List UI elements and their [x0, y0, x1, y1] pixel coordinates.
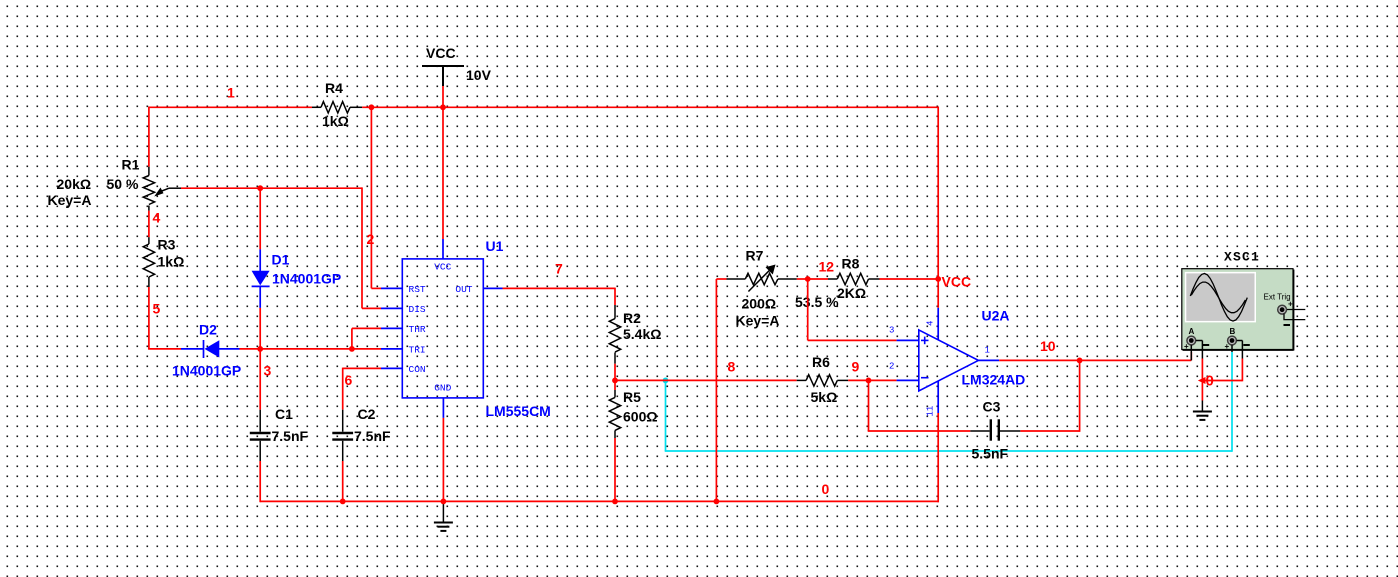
resistor R3: [143, 237, 154, 287]
svg-text:VCC: VCC: [434, 262, 451, 273]
wire cyan probe net: [665, 352, 1232, 452]
junction R7 drop / rail: [714, 499, 720, 505]
wire net 7 OUT: [503, 288, 616, 305]
svg-text:R7: R7: [746, 248, 764, 264]
svg-text:CON: CON: [409, 364, 426, 375]
capacitor C2: [332, 410, 353, 461]
wire net 6 CON to C2: [343, 368, 381, 410]
svg-text:50 %: 50 %: [107, 176, 139, 192]
svg-text:3: 3: [264, 363, 272, 379]
svg-text:R5: R5: [623, 389, 641, 405]
svg-text:53.5 %: 53.5 %: [795, 294, 839, 310]
R7 wiper arrowhead: [766, 265, 776, 275]
svg-text:1N4001GP: 1N4001GP: [272, 271, 341, 287]
junction wiper / D1 branch: [257, 185, 263, 191]
junction R7/R8/+in: [805, 276, 811, 282]
U2A - input sign: [921, 377, 929, 379]
junction VCC right rail: [935, 276, 941, 282]
svg-text:U2A: U2A: [982, 308, 1010, 324]
svg-text:12: 12: [819, 259, 835, 275]
junction at VCC stem: [440, 104, 446, 110]
wire net 5: [148, 287, 181, 349]
svg-text:4: 4: [926, 321, 936, 326]
svg-text:Ext Trig: Ext Trig: [1264, 293, 1291, 302]
svg-text:R6: R6: [812, 354, 830, 370]
svg-text:5.4kΩ: 5.4kΩ: [623, 326, 661, 342]
Ext Trig terminal: [1278, 305, 1287, 314]
svg-text:GND: GND: [434, 383, 451, 394]
svg-text:10V: 10V: [466, 67, 492, 83]
R1 wiper arrowhead: [154, 188, 163, 197]
junction output / C3 branch: [1077, 358, 1083, 364]
U2A pin stubs: [897, 308, 1000, 413]
junction gnd / rail: [441, 499, 447, 505]
wire net 10 output: [999, 352, 1191, 360]
ground symbol under U1: [434, 502, 453, 531]
wire +input from R7 junction: [808, 279, 897, 340]
junction C2 / rail: [340, 499, 346, 505]
svg-text:2KΩ: 2KΩ: [837, 285, 866, 301]
wire VCC to U1 top pin: [442, 107, 444, 239]
svg-text:4: 4: [153, 210, 161, 226]
svg-text:Key=A: Key=A: [48, 192, 92, 208]
junction net3 / C1 branch: [257, 346, 263, 352]
svg-text:R1: R1: [122, 157, 140, 173]
cyan junction on net 8: [663, 378, 669, 384]
svg-text:C1: C1: [275, 406, 293, 422]
svg-text:RST: RST: [409, 284, 426, 295]
potentiometer R7: [716, 279, 807, 501]
svg-text:Key=A: Key=A: [736, 313, 780, 329]
wire net 3 horizontal to TRI: [240, 328, 382, 349]
resistor R4: [312, 102, 362, 113]
svg-text:THR: THR: [409, 324, 426, 335]
svg-text:1: 1: [985, 346, 990, 356]
svg-text:0: 0: [822, 481, 830, 497]
wire scope A minus path: [1196, 341, 1203, 359]
svg-text:600Ω: 600Ω: [623, 409, 658, 425]
svg-text:D2: D2: [199, 322, 217, 338]
wire pin 11 down to rail: [937, 413, 939, 502]
svg-text:R3: R3: [158, 237, 176, 253]
junction net9 / C3 branch: [866, 378, 872, 384]
capacitor C1: [259, 349, 261, 502]
wire net 8: [615, 364, 797, 381]
wire net 4: [148, 211, 150, 238]
svg-text:+: +: [1184, 342, 1189, 351]
wire VCC junction to pin 4: [937, 279, 939, 308]
svg-text:DIS: DIS: [409, 304, 426, 315]
resistor R6: [797, 375, 849, 386]
terminal A minus mark: [1203, 344, 1210, 346]
svg-text:3: 3: [889, 326, 894, 336]
junction R2/R5/net8: [612, 378, 618, 384]
wire VCC stem: [442, 86, 444, 107]
svg-text:1kΩ: 1kΩ: [158, 254, 185, 270]
junction at R4 right / RST drop: [369, 104, 375, 110]
wire net 0 bottom rail: [260, 500, 939, 502]
svg-text:C2: C2: [358, 406, 376, 422]
svg-text:+: +: [1288, 300, 1293, 309]
svg-text:2: 2: [889, 362, 894, 372]
svg-text:1: 1: [227, 85, 235, 101]
svg-text:OUT: OUT: [455, 284, 472, 295]
svg-text:VCC: VCC: [426, 45, 456, 61]
svg-text:7.5nF: 7.5nF: [354, 428, 391, 444]
op-amp U2A LM324AD: [919, 330, 979, 391]
svg-text:5.5nF: 5.5nF: [972, 446, 1009, 462]
svg-text:5kΩ: 5kΩ: [811, 389, 838, 405]
svg-text:1N4001GP: 1N4001GP: [172, 363, 241, 379]
svg-text:D1: D1: [272, 252, 290, 268]
svg-text:LM324AD: LM324AD: [962, 372, 1026, 388]
terminal B: [1228, 336, 1237, 345]
junction net3 / THR branch: [349, 346, 355, 352]
svg-text:LM555CM: LM555CM: [486, 403, 551, 419]
svg-text:10: 10: [1040, 338, 1056, 354]
wire net 9: [848, 379, 896, 381]
Ext Trig terminal lines: [1284, 310, 1305, 320]
wire net 2 wiper to DIS: [181, 187, 381, 308]
scope trace A sine: [1190, 274, 1247, 322]
wire scope A plus stub: [1190, 345, 1192, 360]
oscilloscope XSC1 body: [1182, 269, 1293, 350]
wire U1 GND pin down: [442, 418, 444, 502]
diode D1 1N4001GP vertical: [259, 188, 261, 349]
svg-text:VCC: VCC: [942, 274, 972, 290]
svg-text:1kΩ: 1kΩ: [322, 113, 349, 129]
wire scope B minus path: [1237, 341, 1243, 359]
svg-text:A: A: [1189, 327, 1195, 336]
resistor R5: [614, 380, 616, 502]
resistor R2: [609, 305, 620, 364]
diode D2 1N4001GP: [181, 340, 240, 358]
svg-text:R8: R8: [842, 256, 860, 272]
oscilloscope screen: [1185, 272, 1256, 323]
svg-text:R2: R2: [623, 310, 641, 326]
capacitor C3: [868, 360, 1080, 431]
svg-text:5: 5: [153, 301, 161, 317]
svg-text:0: 0: [1206, 373, 1214, 390]
svg-text:200Ω: 200Ω: [742, 296, 777, 312]
svg-text:7.5nF: 7.5nF: [272, 428, 309, 444]
U2A + input sign: [921, 337, 929, 345]
U1 pin stubs: [381, 239, 503, 418]
svg-text:6: 6: [345, 372, 353, 388]
Ext Trig minus mark: [1284, 324, 1291, 326]
wire scope B plus stub: [1231, 345, 1233, 352]
svg-text:XSC1: XSC1: [1224, 250, 1260, 265]
potentiometer R1: [143, 167, 181, 211]
svg-text:R4: R4: [325, 80, 343, 96]
terminal A: [1187, 336, 1196, 345]
svg-text:+: +: [1225, 342, 1230, 351]
svg-text:TRI: TRI: [409, 345, 426, 356]
wire net 2: RST drop from wire1: [371, 107, 381, 288]
svg-text:8: 8: [728, 359, 736, 375]
scope trace B sine: [1191, 282, 1245, 313]
net 0 arrow marker: [1198, 377, 1206, 384]
junction R5 / rail: [612, 499, 618, 505]
svg-text:9: 9: [852, 359, 860, 375]
svg-text:B: B: [1230, 327, 1236, 336]
svg-text:7: 7: [555, 261, 563, 277]
VCC power symbol: [422, 66, 464, 86]
wire net 1 top horizontal: [149, 107, 938, 280]
svg-text:C3: C3: [983, 399, 1001, 415]
resistor R8: [808, 278, 939, 280]
op-amp U1 LM555CM box: [402, 259, 483, 398]
ground symbol at scope: [1193, 401, 1212, 420]
svg-text:U1: U1: [486, 238, 504, 254]
svg-text:11: 11: [926, 406, 936, 417]
terminal B minus mark: [1243, 344, 1250, 346]
svg-text:2: 2: [367, 231, 375, 247]
svg-text:20kΩ: 20kΩ: [57, 176, 92, 192]
